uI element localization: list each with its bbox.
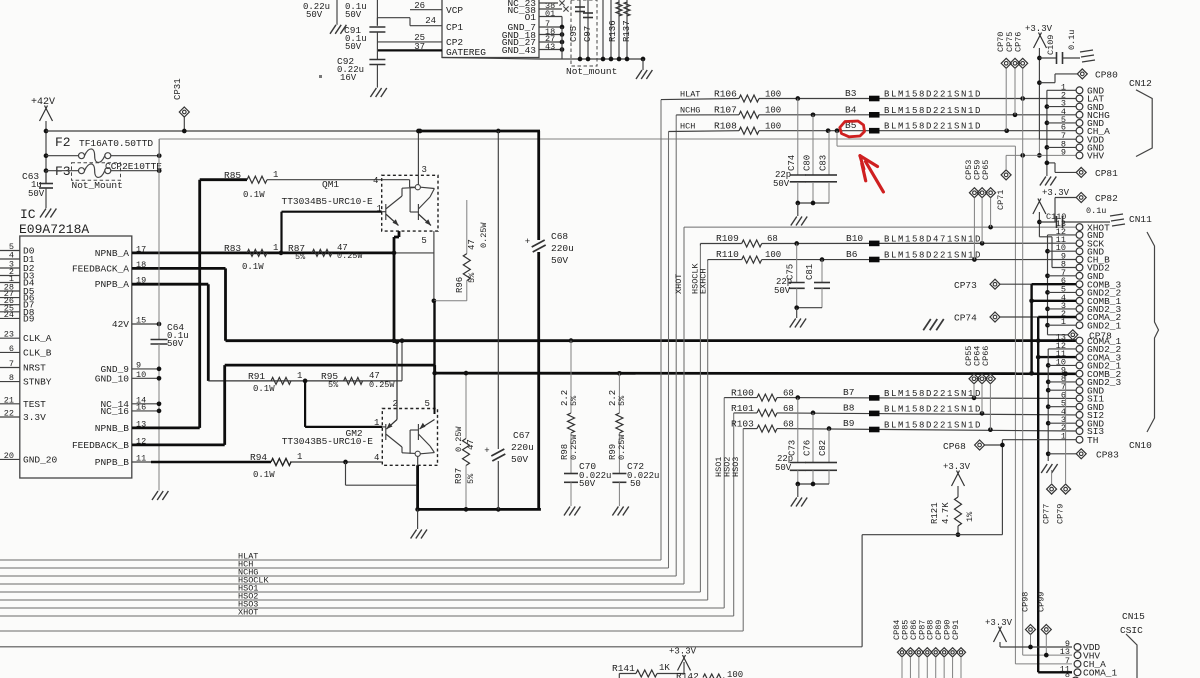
wire riser HSO1 bbox=[723, 398, 725, 608]
svg-text:0.1W: 0.1W bbox=[242, 262, 264, 272]
resistor R106 100 bbox=[739, 95, 759, 102]
svg-text:R100: R100 bbox=[731, 388, 754, 399]
wire riser NCHG bbox=[675, 115, 677, 576]
svg-text:NPNB_A: NPNB_A bbox=[95, 248, 130, 259]
svg-text:COMA_1: COMA_1 bbox=[1083, 668, 1118, 678]
wire QM2 pin5 column bbox=[433, 301, 435, 373]
red circle around B5 bbox=[840, 121, 865, 137]
ground C110 bbox=[1110, 214, 1123, 216]
bottom rail wire bbox=[442, 58, 539, 60]
svg-text:Not_Mount: Not_Mount bbox=[72, 180, 123, 191]
node B5 branch bbox=[826, 128, 831, 133]
svg-text:STNBY: STNBY bbox=[23, 377, 52, 388]
pin 37 wire GATEREG bbox=[378, 49, 442, 51]
svg-text:QM1: QM1 bbox=[322, 179, 339, 190]
node COMB_1 feed bbox=[1029, 298, 1034, 303]
svg-text:NPNB_B: NPNB_B bbox=[95, 423, 130, 434]
IC pin 6 CLK_B bbox=[0, 351, 20, 353]
svg-text:68: 68 bbox=[783, 389, 794, 399]
svg-text:100: 100 bbox=[765, 90, 781, 100]
svg-text:R97: R97 bbox=[454, 468, 464, 484]
wire CN10 gnd rail bbox=[1047, 349, 1049, 461]
wire bus HCH bbox=[0, 567, 669, 569]
svg-text:3.3V: 3.3V bbox=[23, 412, 46, 423]
QM1 pin3 wire to +42V rail bbox=[417, 131, 419, 185]
wire riser HSO3 bbox=[742, 429, 744, 631]
ground rail bbox=[417, 509, 419, 529]
wire bus line to R103 riser bbox=[0, 630, 743, 632]
svg-text:R85: R85 bbox=[224, 170, 241, 181]
wire R101 row B8 bbox=[734, 412, 757, 414]
svg-text:+3.3V: +3.3V bbox=[1042, 188, 1070, 198]
CN11/CN10 bracket bbox=[1147, 232, 1159, 432]
wire CN11 gnd rail bbox=[1047, 235, 1049, 333]
QM1 pin4 internal wire bbox=[382, 179, 410, 181]
node CP66 bbox=[988, 427, 993, 432]
svg-text:50V: 50V bbox=[511, 454, 528, 465]
IC pin 24 D9 bbox=[0, 317, 20, 319]
svg-text:1: 1 bbox=[297, 452, 302, 462]
svg-text:XHOT: XHOT bbox=[674, 274, 684, 294]
node COMA_3 feed bbox=[1036, 355, 1041, 360]
resistor R85 1 0.1W bbox=[247, 176, 267, 183]
pin 26 wire bbox=[410, 9, 442, 11]
svg-text:R137: R137 bbox=[622, 20, 632, 42]
wire FEEDBACK_B (pin12) to row2 bbox=[132, 443, 225, 446]
svg-text:68: 68 bbox=[783, 420, 794, 430]
CN12 pin 1 GND bbox=[1076, 87, 1083, 94]
IC pin 2 D3 bbox=[0, 275, 20, 277]
svg-text:0.1W: 0.1W bbox=[253, 384, 275, 394]
svg-text:NRST: NRST bbox=[23, 363, 46, 374]
resistor R87 5% 47 0.25W bbox=[312, 249, 332, 256]
svg-text:CLK_A: CLK_A bbox=[23, 333, 52, 344]
CN15 pin 7 CH_A bbox=[1074, 661, 1081, 668]
capacitor C110 0.1u bbox=[1039, 221, 1056, 223]
node R94 bbox=[343, 460, 348, 465]
CN11 pin 8 VDD2 bbox=[1076, 264, 1083, 271]
svg-text:R94: R94 bbox=[250, 452, 267, 463]
wire VDD2 feed bbox=[1039, 236, 1052, 238]
svg-text:4: 4 bbox=[373, 176, 378, 186]
capacitor C95 bbox=[579, 0, 581, 59]
+3.3V supply arrow bbox=[994, 627, 1002, 643]
CN10 pin 8 GND2_3 bbox=[1076, 379, 1083, 386]
CN12 pin 2 LAT bbox=[1076, 95, 1083, 102]
svg-text:50V: 50V bbox=[551, 255, 568, 266]
ground C73 group bbox=[791, 498, 797, 507]
node C80 bbox=[811, 112, 816, 117]
+3.3V supply arrow bbox=[952, 471, 960, 487]
svg-text:E09A7218A: E09A7218A bbox=[19, 222, 89, 237]
capacitor C67 220u 50V electrolytic bbox=[497, 131, 499, 449]
svg-text:CP79: CP79 bbox=[1056, 504, 1066, 524]
IC pin 8 STNBY bbox=[0, 381, 20, 383]
svg-text:D9: D9 bbox=[23, 313, 35, 324]
node QM1 collector bbox=[392, 251, 397, 256]
capacitor C72 0.022u 50V bbox=[612, 473, 626, 475]
resistor R98 2.2 5% 0.25W bbox=[569, 338, 574, 343]
wire bottom rail bbox=[418, 508, 541, 511]
svg-text:5: 5 bbox=[421, 236, 426, 246]
wire column bbox=[610, 0, 612, 59]
node +42V rail junctions bbox=[44, 129, 49, 134]
wire bus NCHG bbox=[0, 575, 676, 577]
svg-text:CP91: CP91 bbox=[951, 620, 961, 640]
svg-text:0.1W: 0.1W bbox=[253, 470, 275, 480]
CN12 pin 7 VDD bbox=[1076, 136, 1083, 143]
svg-text:+3.3V: +3.3V bbox=[943, 462, 971, 472]
svg-text:CP99: CP99 bbox=[1036, 592, 1046, 612]
wire B5 to CH_A CSIC net bbox=[836, 131, 838, 146]
resistor R121 4.7K 1% bbox=[957, 486, 959, 497]
svg-text:CP81: CP81 bbox=[1095, 168, 1118, 179]
wire R85 row to QM1 pin4 bbox=[200, 178, 247, 181]
resistor R83 1 0.1W bbox=[247, 249, 267, 256]
svg-text:BLM158D221SN1D: BLM158D221SN1D bbox=[884, 405, 982, 415]
wire +42V rail thick segment bbox=[418, 130, 540, 133]
wire R121 row bbox=[862, 534, 1002, 536]
transistor QM1 TT3034B5-URC10-E dashed box bbox=[382, 175, 438, 231]
svg-text:GATEREG: GATEREG bbox=[446, 47, 486, 58]
capacitor C73 22p 50V bbox=[797, 398, 799, 463]
svg-text:R96: R96 bbox=[455, 277, 465, 293]
IC pin 21 TEST bbox=[0, 403, 20, 405]
svg-text:0.25W: 0.25W bbox=[479, 222, 489, 248]
CN11 pin 9 CH_B bbox=[1076, 256, 1083, 263]
node R83/R87 bbox=[279, 251, 284, 256]
svg-text:50: 50 bbox=[630, 479, 641, 489]
testpoint CP82 bbox=[1076, 193, 1086, 203]
node C76 bbox=[811, 411, 816, 416]
CN12 pin 4 NCHG bbox=[1076, 111, 1083, 118]
wire bus HSO3 bbox=[0, 607, 724, 609]
CN12 pin 9 VHV bbox=[1076, 152, 1083, 159]
node CP55 bbox=[972, 396, 977, 401]
svg-text:R136: R136 bbox=[608, 20, 618, 42]
node row2 end bbox=[1029, 371, 1034, 376]
IC pin 27 D6 bbox=[0, 297, 20, 299]
IC pin 22 3.3V bbox=[0, 416, 20, 418]
CN10 pin 7 GND bbox=[1076, 387, 1083, 394]
svg-text:HCH: HCH bbox=[680, 122, 695, 132]
svg-text:C80: C80 bbox=[803, 155, 813, 171]
QM2 left transistor bbox=[385, 424, 387, 440]
svg-text:R91: R91 bbox=[248, 371, 265, 382]
resistor R99 2.2 5% 0.25W bbox=[617, 371, 622, 376]
wire NPNB_B (pin13) up to R85 bbox=[132, 426, 200, 429]
IC pin 1 D4 bbox=[0, 282, 20, 284]
wire C91 jog to pin 24 bbox=[376, 18, 378, 26]
svg-text:0.25W: 0.25W bbox=[617, 434, 627, 460]
svg-text:R110: R110 bbox=[716, 249, 739, 260]
svg-text:CP1: CP1 bbox=[446, 22, 463, 33]
svg-text:24: 24 bbox=[425, 16, 436, 26]
ground at rail end bbox=[641, 57, 646, 62]
pin 38 stub x bbox=[539, 8, 562, 10]
svg-text:3: 3 bbox=[422, 165, 427, 175]
svg-text:0.1u: 0.1u bbox=[1086, 206, 1106, 216]
resistor R136 bbox=[618, 0, 620, 59]
testpoint CP83 bbox=[1046, 451, 1051, 456]
ground C70 bbox=[564, 507, 570, 516]
svg-text:C83: C83 bbox=[819, 155, 829, 171]
ground C72 bbox=[612, 507, 618, 516]
QM1 right transistor bbox=[417, 204, 419, 220]
svg-text:8: 8 bbox=[9, 373, 14, 383]
svg-text:TF16AT0.50TTD: TF16AT0.50TTD bbox=[79, 138, 153, 149]
wire R109 row B10 bbox=[699, 244, 701, 246]
svg-text:16V: 16V bbox=[340, 73, 357, 83]
IC pin 20 GND_20 bbox=[0, 458, 20, 460]
resistor R110 100 bbox=[742, 256, 762, 263]
svg-text:6: 6 bbox=[9, 344, 14, 354]
svg-text:+3.3V: +3.3V bbox=[1025, 24, 1053, 34]
QM1 emitter node circle bbox=[415, 185, 420, 190]
svg-text:47: 47 bbox=[467, 239, 477, 250]
IC pin 7 NRST bbox=[0, 367, 20, 369]
wire cap bottoms bbox=[798, 483, 829, 485]
wire column bbox=[602, 0, 604, 59]
wire riser HCH bbox=[668, 132, 670, 569]
svg-text:37: 37 bbox=[414, 42, 425, 52]
node R96 bottom join bbox=[432, 298, 437, 303]
+3.3V supply arrow bbox=[1034, 33, 1042, 49]
svg-text:+: + bbox=[484, 446, 489, 456]
svg-text:BLM158D221SN1D: BLM158D221SN1D bbox=[884, 106, 982, 116]
svg-text:VCP: VCP bbox=[446, 5, 463, 16]
+3.3V supply arrow bbox=[678, 655, 686, 671]
CN15 pin 11 COMA_1 bbox=[1074, 669, 1081, 676]
svg-text:5%: 5% bbox=[617, 395, 627, 406]
svg-text:C67: C67 bbox=[513, 430, 530, 441]
wire bus HSO2 bbox=[0, 599, 708, 601]
svg-text:F3: F3 bbox=[55, 164, 71, 179]
svg-text:BLM158D221SN1D: BLM158D221SN1D bbox=[884, 122, 982, 132]
svg-text:C76: C76 bbox=[803, 440, 813, 456]
svg-text:B9: B9 bbox=[843, 418, 855, 429]
resistor R96 47 5% 0.25W bbox=[466, 200, 468, 254]
ground near CP74 bbox=[923, 319, 931, 330]
wire R95 up to row1 bbox=[401, 341, 403, 381]
capacitor C97 bbox=[587, 0, 589, 59]
svg-text:GND_10: GND_10 bbox=[95, 373, 130, 384]
svg-text:C97: C97 bbox=[583, 26, 593, 42]
svg-text:HSO3: HSO3 bbox=[731, 457, 741, 477]
node fuse output bbox=[157, 153, 162, 158]
svg-text:B3: B3 bbox=[845, 88, 857, 99]
node C75 bbox=[794, 241, 799, 246]
wire NCHG row B4 bbox=[676, 114, 739, 116]
svg-text:50V: 50V bbox=[345, 42, 362, 52]
capacitor C81 bbox=[821, 260, 823, 283]
resistor R109 68 bbox=[742, 240, 762, 247]
svg-text:C109: C109 bbox=[1046, 35, 1056, 55]
svg-text:HLAT: HLAT bbox=[680, 90, 700, 100]
svg-text:R109: R109 bbox=[716, 233, 739, 244]
svg-text:1: 1 bbox=[273, 170, 278, 180]
CN12 pin 5 GND bbox=[1076, 120, 1083, 127]
node C73 bbox=[795, 395, 800, 400]
svg-text:68: 68 bbox=[767, 234, 778, 244]
svg-text:47: 47 bbox=[466, 439, 476, 450]
svg-text:CN11: CN11 bbox=[1129, 214, 1152, 225]
resistor R101 68 bbox=[757, 409, 777, 416]
resistor R103 68 bbox=[757, 425, 777, 432]
svg-text:GND_43: GND_43 bbox=[502, 45, 537, 56]
resistor R108 100 bbox=[739, 127, 759, 134]
CN11 pin 3 GND2_3 bbox=[1076, 306, 1083, 313]
svg-text:C74: C74 bbox=[787, 155, 797, 171]
svg-text:B7: B7 bbox=[843, 387, 854, 398]
CN11 pin 7 GND bbox=[1076, 272, 1083, 279]
wire VHV row to CN12 pin9 bbox=[1006, 154, 1076, 156]
svg-text:F2: F2 bbox=[55, 135, 71, 150]
testpoint CP81 bbox=[1076, 167, 1086, 177]
svg-text:R103: R103 bbox=[731, 419, 754, 430]
resistor R100 68 bbox=[757, 394, 777, 401]
svg-text:R83: R83 bbox=[224, 243, 241, 254]
svg-text:R107: R107 bbox=[714, 105, 737, 116]
wire riser HSO2 bbox=[733, 413, 735, 616]
wire VDD pin7 feed bbox=[1039, 138, 1076, 140]
svg-text:220u: 220u bbox=[511, 442, 534, 453]
wire riser EXHCH bbox=[707, 261, 709, 601]
wire QM1 bottom-left pin down to row1 bbox=[398, 231, 401, 237]
svg-text:50V: 50V bbox=[167, 339, 184, 349]
node CP75/NCHG bbox=[1013, 112, 1018, 117]
+3.3V supply arrow bbox=[1033, 199, 1041, 215]
svg-text:68: 68 bbox=[783, 404, 794, 414]
CN10 pin 9 COMB_2 bbox=[1076, 370, 1083, 377]
svg-text:R101: R101 bbox=[731, 403, 754, 414]
svg-text:R142: R142 bbox=[676, 671, 699, 678]
wire QM2 pin2 from row1 bbox=[396, 341, 398, 420]
ground CN10 bbox=[1041, 464, 1047, 473]
wire HLAT row B3 bbox=[661, 99, 739, 100]
svg-text:0.25W: 0.25W bbox=[454, 426, 464, 452]
resistor R91 1 0.1W bbox=[271, 377, 291, 384]
wire COMA_2 feed thick bbox=[1038, 316, 1076, 318]
wire riser to bus bbox=[861, 535, 863, 647]
svg-text:4.7K: 4.7K bbox=[941, 502, 951, 524]
dashed not-mount box bbox=[571, 0, 597, 66]
wire COMB_3 feed thick bbox=[1032, 283, 1076, 285]
CN12 pin 6 CH_A bbox=[1076, 127, 1083, 134]
node C74 bbox=[795, 96, 800, 101]
resistor R141 1K bbox=[618, 674, 620, 678]
svg-text:CP76: CP76 bbox=[1013, 32, 1023, 52]
svg-text:BLM158D221SN1D: BLM158D221SN1D bbox=[884, 421, 982, 431]
capacitor C109 0.1u bbox=[1039, 57, 1056, 59]
svg-text:C73: C73 bbox=[788, 440, 798, 456]
svg-text:B4: B4 bbox=[845, 104, 857, 115]
svg-text:22: 22 bbox=[4, 409, 14, 419]
wire COMB row2 thick with step bbox=[225, 364, 435, 367]
CN10 pin 3 GND bbox=[1076, 420, 1083, 427]
IC pin 5 D0 bbox=[0, 250, 20, 252]
wire riser XHOT bbox=[683, 227, 685, 584]
CN12 bracket bbox=[1136, 90, 1152, 157]
svg-text:0.1W: 0.1W bbox=[243, 190, 265, 200]
svg-text:CP98: CP98 bbox=[1021, 592, 1031, 612]
resistor R95 5% 47 0.25W bbox=[344, 377, 363, 384]
svg-text:BLM158D471SN1D: BLM158D471SN1D bbox=[884, 235, 982, 245]
svg-text:8: 8 bbox=[1065, 670, 1070, 678]
CN11 pin 12 GND bbox=[1076, 232, 1083, 239]
CN10 pin 6 SI1 bbox=[1076, 395, 1083, 402]
wire gnd bus down bbox=[561, 27, 563, 59]
testpoint CP80 bbox=[1077, 69, 1087, 79]
svg-text:EXHCH: EXHCH bbox=[699, 268, 709, 294]
CN10 pin 12 GND2_2 bbox=[1076, 346, 1083, 353]
svg-text:Not_mount: Not_mount bbox=[566, 66, 617, 77]
wire COMA row1 thick bbox=[226, 339, 1077, 342]
svg-text:R141: R141 bbox=[612, 663, 635, 674]
wire VHV net from fuse to right bbox=[158, 139, 160, 156]
svg-text:9: 9 bbox=[1061, 147, 1066, 157]
CN10 pin 1 TH bbox=[1076, 436, 1083, 443]
wire CN12 gnd rail bbox=[1046, 90, 1048, 176]
QM2 right transistor bbox=[417, 424, 419, 440]
resistor R97 47 0.25W 5% bbox=[465, 373, 467, 438]
CN10 pin 11 COMA_3 bbox=[1076, 354, 1083, 361]
wire bus HSO1 bbox=[0, 591, 700, 593]
svg-text:VHV: VHV bbox=[1087, 151, 1104, 162]
svg-text:42V: 42V bbox=[112, 319, 129, 330]
svg-text:50V: 50V bbox=[579, 479, 596, 489]
capacitor C83 bbox=[828, 131, 830, 175]
svg-text:+: + bbox=[525, 237, 530, 247]
IC U-top box (partial) bbox=[442, 0, 539, 58]
wire +42V rail bbox=[46, 130, 418, 132]
svg-text:0.25W: 0.25W bbox=[569, 434, 579, 460]
svg-text:CP68: CP68 bbox=[943, 441, 966, 452]
svg-text:0.1u: 0.1u bbox=[1067, 30, 1077, 50]
node CP64 bbox=[980, 411, 985, 416]
svg-text:NC_16: NC_16 bbox=[100, 406, 129, 417]
svg-text:CP83: CP83 bbox=[1096, 450, 1119, 461]
wire R103 row B9 bbox=[743, 428, 757, 430]
svg-text:CN10: CN10 bbox=[1129, 440, 1152, 451]
CN10 pin 2 SI3 bbox=[1076, 428, 1083, 435]
svg-text:R108: R108 bbox=[714, 121, 737, 132]
wire R91 row bbox=[208, 380, 402, 382]
testpoint CP78 bbox=[1068, 330, 1078, 340]
svg-text:CP65: CP65 bbox=[981, 160, 991, 180]
pin 25 wire bbox=[377, 41, 442, 43]
capacitor C80 bbox=[812, 115, 814, 175]
CN12 pin 8 GND bbox=[1076, 144, 1083, 151]
svg-text:CSIC: CSIC bbox=[1120, 625, 1143, 636]
svg-text:50V: 50V bbox=[28, 189, 45, 199]
svg-text:CP80: CP80 bbox=[1095, 70, 1118, 81]
svg-text:TT3043B5-URC10-E: TT3043B5-URC10-E bbox=[282, 436, 374, 447]
node CP59/SCK bbox=[980, 241, 985, 246]
svg-text:B6: B6 bbox=[846, 249, 858, 260]
svg-text:CP74: CP74 bbox=[954, 313, 977, 324]
red arrow pointing to B5 bbox=[866, 162, 884, 192]
transistor QM2 TT3043B5-URC10-E dashed box bbox=[382, 409, 437, 466]
svg-text:5%: 5% bbox=[295, 252, 306, 262]
svg-text:CP66: CP66 bbox=[981, 346, 991, 366]
wire QM1 pin1 to R87 junction bbox=[282, 211, 382, 213]
svg-text:XHOT: XHOT bbox=[238, 608, 258, 618]
svg-text:43: 43 bbox=[545, 42, 555, 52]
svg-text:5%: 5% bbox=[467, 272, 477, 283]
capacitor C70 0.022u 50V bbox=[564, 473, 578, 475]
wire PNPB_A (pin19) down bbox=[132, 283, 208, 286]
